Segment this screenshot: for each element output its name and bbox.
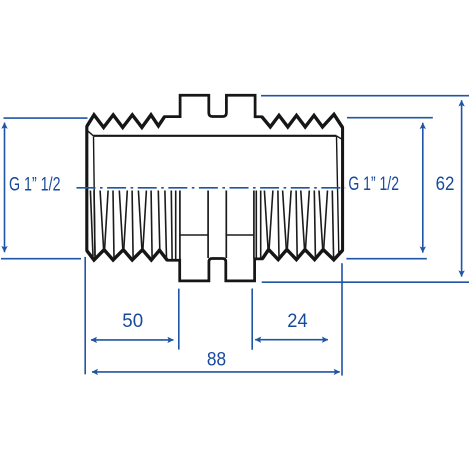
outer edge verticals (heavier) (87, 126, 343, 251)
dimension 62: arrowheads (458, 100, 464, 277)
dimension 88: dimension line (92, 371, 340, 373)
hex facet horizontals (180, 234, 254, 236)
dimension G right: arrowheads (420, 123, 426, 253)
dimension G left: arrowheads (1, 122, 7, 252)
centerline (77, 187, 346, 189)
dimension 50: extension lines (85, 257, 179, 374)
thread crest zigzags (heavier) (87, 114, 343, 260)
fitting outline (double nipple silhouette) (87, 95, 343, 281)
body shoulder line (93, 135, 336, 137)
dimension 24: arrowheads (255, 337, 328, 343)
svg-text:G 1” 1/2: G 1” 1/2 (9, 174, 61, 196)
dimension 24: extension lines (252, 263, 342, 375)
right thread hatch (256, 191, 333, 259)
svg-text:G 1” 1/2: G 1” 1/2 (348, 173, 399, 195)
svg-text:50: 50 (122, 310, 143, 332)
right inner chamfer line (337, 137, 339, 253)
dimension G right: extension lines (346, 118, 432, 259)
dimension 88: arrowheads (92, 369, 341, 375)
left chamfer corner (87, 131, 93, 136)
svg-text:62: 62 (436, 173, 455, 195)
left thread hatch (90, 191, 175, 260)
dimension 50: arrowheads (91, 337, 174, 343)
svg-text:24: 24 (287, 310, 307, 332)
svg-text:88: 88 (207, 349, 226, 371)
left inner chamfer line (94, 137, 96, 259)
right chamfer corner (336, 136, 342, 140)
dimension G left: extension lines (1, 118, 88, 259)
hex facet edges (180, 191, 254, 260)
dimension 62: extension lines (261, 96, 469, 283)
